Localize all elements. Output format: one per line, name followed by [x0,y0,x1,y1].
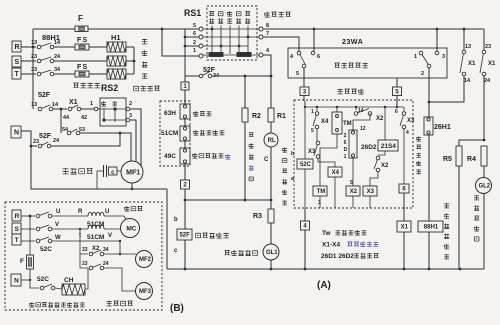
contact 88H1 33-34 [21,73,36,75]
svg-text:5: 5 [193,23,196,29]
svg-text:6: 6 [317,54,320,60]
wire heater row2 to star point [126,60,134,62]
svg-text:24: 24 [484,78,491,84]
defrost switch 26D1 [353,114,370,131]
wire S row [54,60,107,62]
wire W row [52,241,120,254]
outdoor inner top bus [305,106,404,108]
contact X1 13-14 right [463,29,465,50]
svg-text:T: T [15,237,19,244]
svg-text:34: 34 [103,247,109,253]
timer TM contacts [336,107,338,112]
svg-text:2: 2 [344,133,347,139]
svg-text:52C: 52C [40,246,52,253]
RS1 column lines [211,26,213,55]
svg-text:51CM: 51CM [161,130,178,137]
terminal T [12,68,21,79]
svg-text:X3: X3 [308,149,316,155]
resistor R3 [268,209,274,223]
svg-text:6: 6 [402,187,406,193]
svg-text:1: 1 [414,54,417,60]
svg-text:c: c [174,248,178,254]
svg-text:MC: MC [126,225,136,232]
svg-text:6: 6 [344,140,347,146]
svg-text:R: R [15,213,20,220]
svg-text:F: F [78,14,83,23]
coil TM [320,134,337,186]
terminal box 2 [181,180,190,189]
coil X4 [318,159,335,168]
svg-text:3: 3 [303,89,307,95]
contact X3 outdoor [316,129,318,141]
fuse FS row1 [75,44,89,50]
svg-text:33: 33 [31,67,37,73]
svg-text:1: 1 [344,154,347,160]
svg-text:5: 5 [311,128,314,134]
svg-text:H1: H1 [111,33,121,42]
relay 21S4 [384,107,386,140]
fuse FS row3 [75,71,89,77]
RS1 row 5-8 [203,28,259,30]
svg-text:3: 3 [318,200,321,206]
contact 52C W phase [21,240,35,242]
outdoor unit dashed box [338,89,343,94]
svg-text:V: V [55,222,59,228]
heater H1 row1 [107,42,126,52]
RS1 right terminals 8 7 4 [259,27,263,31]
terminal N indoor [11,274,21,286]
svg-text:X2: X2 [381,163,389,169]
svg-text:13: 13 [31,40,37,46]
temperature controller box [288,48,447,78]
svg-text:F: F [20,258,24,265]
svg-text:V: V [108,233,112,239]
contact 88H1 23-24 [21,60,36,62]
svg-text:2: 2 [183,183,187,189]
wire to heater H1 row1 [89,46,107,48]
svg-text:52F: 52F [39,133,52,140]
coil X2 [352,158,354,186]
relay RL [264,133,278,147]
wire to R5 [459,140,484,146]
svg-text:12: 12 [360,126,366,132]
motor MF2 outdoor fan [136,251,153,268]
svg-text:(B): (B) [170,303,184,314]
svg-text:R2: R2 [252,113,261,120]
terminal box 3 [300,87,309,96]
wire 53 to fan motor [80,133,131,162]
wire: heater star bus [133,47,135,74]
terminal T indoor [12,234,21,245]
contact X2 lower [378,151,385,155]
svg-text:RS1: RS1 [184,8,201,18]
svg-text:52C: 52C [37,276,49,283]
svg-text:23: 23 [82,261,88,267]
svg-text:(A): (A) [317,280,331,291]
svg-text:W: W [55,235,61,241]
svg-text:U: U [56,209,60,215]
svg-text:23: 23 [33,139,39,145]
svg-text:23: 23 [485,44,491,50]
svg-text:U: U [105,209,109,215]
svg-text:1: 1 [193,48,196,54]
svg-text:26D2: 26D2 [361,144,377,151]
wire 26H1 down to 88H1 coil [428,135,430,221]
svg-text:D: D [344,147,348,153]
terminal R [12,41,21,52]
svg-text:24: 24 [103,261,109,267]
coil 88H1 [418,221,443,232]
wire N down to fan return [31,146,167,189]
svg-text:X1: X1 [468,61,476,67]
RS1 row 1-4 [203,54,259,56]
winding 51CM row U [52,215,88,217]
wire RS2-3 to fan motor [130,120,136,163]
protector dashed box [160,101,190,166]
wire: top line to RS1 terminal 5 [88,28,199,30]
svg-text:24: 24 [53,138,60,144]
wire terminal3 into box [303,96,305,102]
svg-text:R4: R4 [467,156,476,163]
svg-text:X2: X2 [376,116,384,122]
terminal R indoor [12,210,21,221]
wire: top line RS1-8 to right side [263,28,484,30]
relay 26H1 [424,117,433,135]
wire fan return down to bottom bus [166,189,168,269]
fuse F [75,26,88,32]
wire RS1-4 to R1 [263,55,271,108]
svg-text:42: 42 [81,115,87,121]
svg-text:b: b [174,217,178,223]
svg-text:C: C [264,157,269,163]
terminal box 4 [304,208,306,221]
svg-text:13: 13 [465,44,471,50]
lamp GL1 run indicator [270,223,272,244]
svg-text:R3: R3 [253,213,262,220]
svg-text:R5: R5 [443,156,452,163]
resistor R1 [268,108,274,122]
terminal S [12,56,21,67]
svg-text:6: 6 [193,31,196,37]
svg-text:X1: X1 [69,99,78,106]
resistor R2 [244,76,246,108]
coil 52C compressor contactor [304,107,306,159]
svg-text:N: N [14,277,19,284]
motor MF3 outdoor fan [136,283,153,300]
contact X1 23-24 right [483,29,485,50]
svg-text:MF1: MF1 [126,170,140,177]
contact X2 outdoor top [355,107,357,110]
wire 24 up to fan feed [51,133,120,146]
wire contact 5 to terminal 3 [303,68,305,87]
svg-text:RS2: RS2 [101,83,118,93]
wire: branch down to RS1 terminal 1 [162,29,199,56]
svg-text:51CM: 51CM [87,234,104,241]
wire RS2-2 to fan motor [130,109,141,167]
svg-text:5: 5 [350,180,353,186]
wire b-node to R lines [185,199,271,201]
svg-text:R1: R1 [277,113,286,120]
terminal N [11,126,21,138]
svg-text:44: 44 [63,115,70,121]
svg-text:CH: CH [64,277,74,284]
svg-text:3: 3 [129,113,132,119]
svg-text:R: R [78,209,83,215]
svg-text:MF2: MF2 [139,257,152,263]
label electric heater [142,39,147,44]
lamp GL2 defrost running [476,178,492,194]
svg-text:63H: 63H [164,110,176,117]
svg-text:Tw: Tw [322,230,331,237]
wire heater row3 to star point [126,73,134,75]
wire to heater row3 [89,73,107,75]
svg-text:X1-X4: X1-X4 [322,242,340,249]
svg-text:X4: X4 [321,119,329,125]
svg-text:X4: X4 [332,170,340,176]
wire R row to fuse FS [54,46,75,48]
terminal box 6 [399,184,409,193]
svg-text:14: 14 [54,40,61,46]
svg-text:5: 5 [296,71,299,77]
RS1 slider bars [209,53,223,57]
svg-text:14: 14 [464,78,471,84]
indoor unit dashed box B [5,202,162,310]
svg-text:MF3: MF3 [139,289,152,295]
svg-text:26D1 26D2: 26D1 26D2 [321,253,354,260]
svg-text:1: 1 [183,84,187,90]
svg-text:6: 6 [395,109,398,115]
contact X2 33-34 indoor [80,229,88,254]
coil 52F fan contactor [177,229,192,240]
svg-text:S: S [15,226,20,233]
wire: left phase bus [32,29,34,109]
svg-text:S: S [15,59,20,66]
svg-text:TM: TM [317,189,326,195]
svg-text:FS: FS [77,64,88,71]
wire RS1-6/2 to protector bus [185,36,199,38]
svg-text:T: T [15,71,20,78]
svg-text:FS: FS [77,37,88,44]
RS1 row 2 [187,45,248,47]
svg-text:N: N [14,130,19,137]
heater H1 row2 [107,56,126,66]
wire 24 down to resistors [483,76,485,140]
resistor R4 [481,146,487,166]
svg-text:52F: 52F [179,233,190,239]
contact 52C V phase [21,228,35,230]
wire from dot to contact 6 [313,29,315,51]
svg-text:1: 1 [90,101,93,107]
svg-text:2: 2 [193,40,196,46]
terminal S indoor [12,223,21,234]
svg-text:X1: X1 [401,225,409,231]
svg-text:88H1: 88H1 [424,225,439,231]
svg-text:52F: 52F [38,92,51,99]
svg-text:X3: X3 [407,118,415,124]
svg-text:X3: X3 [367,189,375,195]
wire contact 2 down [428,68,430,102]
motor MC compressor [121,219,140,238]
winding 51CM row V [52,228,88,230]
svg-text:21S4: 21S4 [381,143,397,150]
wire protector bus down [184,29,186,82]
coil X1 [403,193,405,221]
svg-text:1: 1 [311,109,314,115]
svg-text:26H1: 26H1 [434,124,451,131]
svg-text:3: 3 [442,54,445,60]
svg-text:33: 33 [82,247,88,253]
svg-text:4: 4 [303,224,307,230]
svg-text:2: 2 [421,71,424,77]
terminal box 5 top [393,87,402,96]
svg-text:23WA: 23WA [342,37,363,46]
wire heater row1 to star point [126,46,134,48]
svg-text:13: 13 [31,102,37,108]
contact X2 23-24 indoor [80,254,88,268]
contact 88H1 13-14 [21,46,36,48]
svg-text:R: R [15,44,20,51]
svg-text:49C: 49C [164,153,176,160]
svg-text:X2: X2 [350,189,358,195]
svg-text:2: 2 [129,101,132,107]
svg-text:7: 7 [266,31,269,37]
label indoor fan [63,168,69,174]
svg-text:24: 24 [54,54,61,60]
svg-text:8: 8 [266,23,269,29]
capacitor C of MF1 [97,170,103,172]
contact X3 right outdoor [403,107,405,111]
contact 52F 23-24 [21,131,37,146]
svg-text:TM: TM [343,121,352,127]
svg-text:5: 5 [395,89,399,95]
svg-text:GL2: GL2 [478,184,490,190]
svg-text:X1: X1 [488,61,496,67]
wire T row to fuse [54,73,75,75]
svg-text:4: 4 [266,48,270,54]
fuse F indoor [29,216,31,255]
terminal box 1 [181,82,189,90]
svg-text:52C: 52C [300,162,312,168]
resistor R5 [456,146,462,166]
motor MF1 indoor fan [121,161,143,183]
svg-text:34: 34 [54,67,61,73]
wire: top supply line y=29 [33,28,75,30]
svg-text:RL: RL [268,138,276,144]
heater H1 row3 [107,69,126,79]
svg-text:14: 14 [52,102,59,108]
wire dot to contact 3 [436,29,438,51]
wire RS1-7 to controller contact 4 [263,37,299,51]
bottom bus [167,268,484,270]
contact 52C U phase [21,215,35,217]
RS1 row 6-7 [203,36,259,38]
coil X3 [370,172,378,186]
svg-text:23: 23 [31,54,37,60]
contact X1 54-53 [60,109,62,133]
wires through protector chain [184,90,186,104]
svg-text:GL1: GL1 [266,250,278,256]
svg-text:4: 4 [290,54,294,60]
svg-text:4: 4 [406,130,409,136]
contact X4 outdoor [316,107,318,111]
